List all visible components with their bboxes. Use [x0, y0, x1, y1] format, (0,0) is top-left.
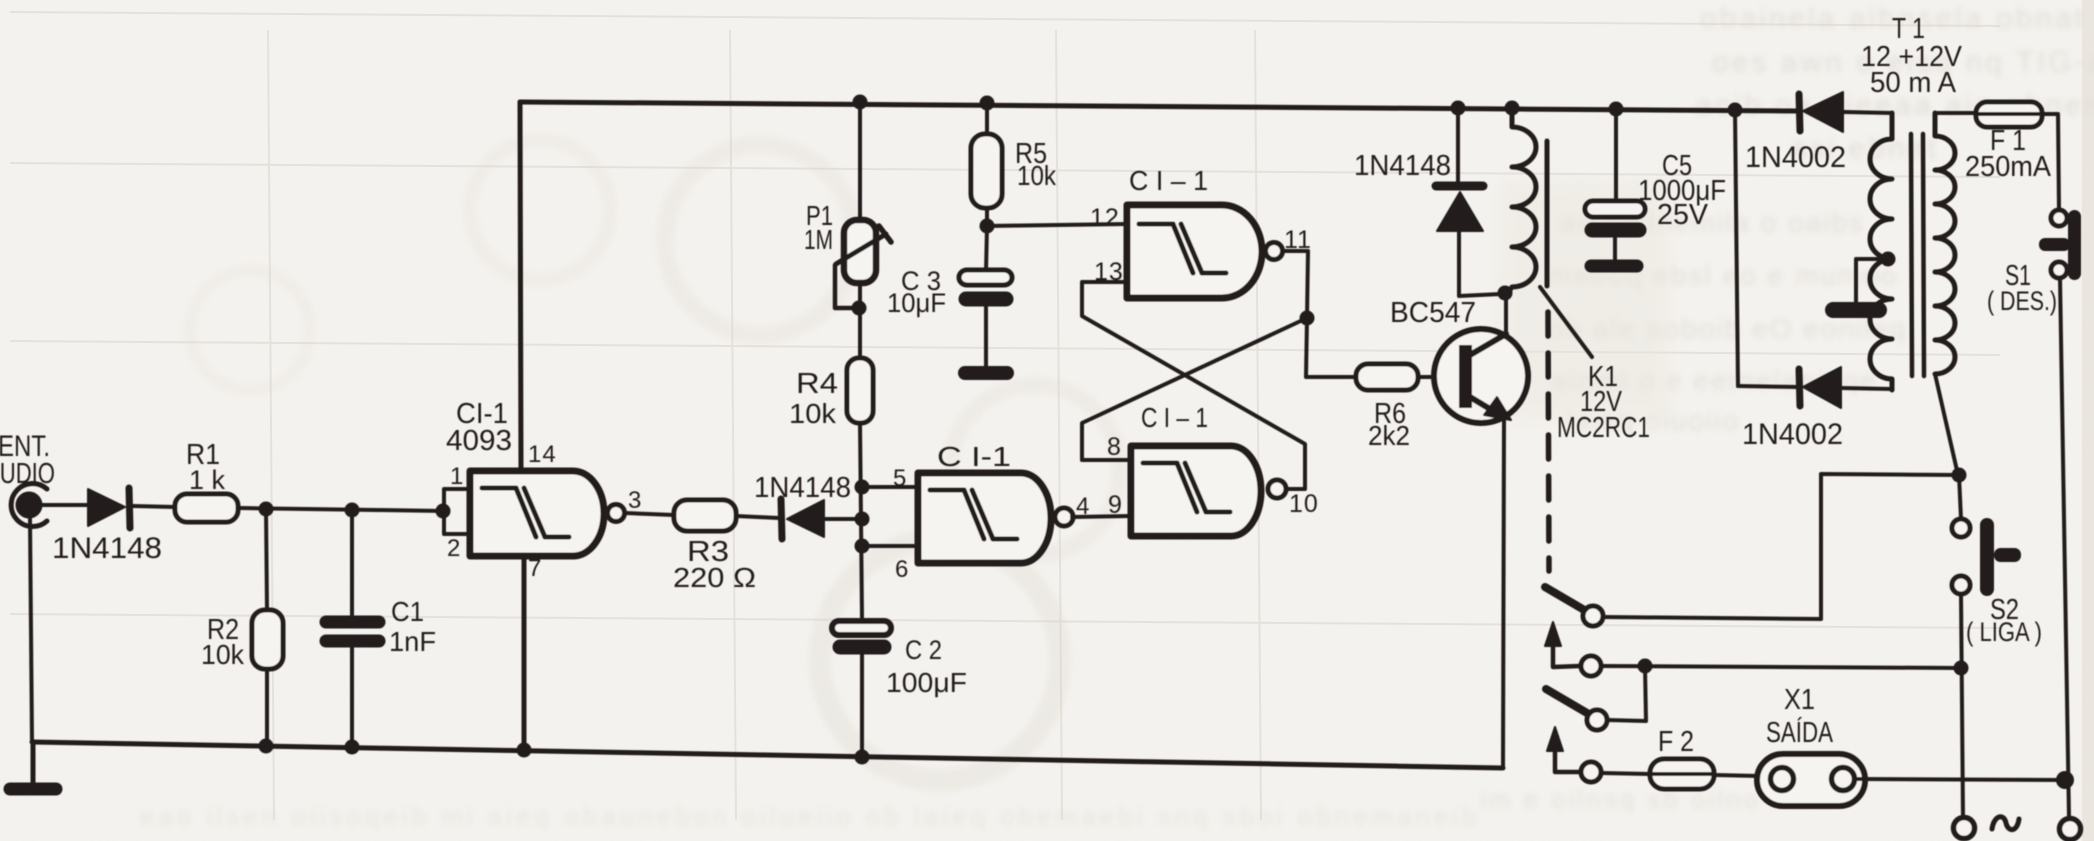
wire: NO contact to S2 top: [1603, 474, 1959, 619]
svg-text:14: 14: [528, 441, 557, 468]
wire: top rail to R5: [985, 103, 989, 134]
wire: pin 13 cross-coupling from gate4 output: [1082, 282, 1305, 489]
resistor R4 10k: [847, 358, 873, 423]
svg-text:220 Ω: 220 Ω: [673, 562, 756, 593]
node: CI-1a input: [436, 504, 451, 519]
node: C2 to 0V rail: [855, 750, 870, 765]
svg-text:10k: 10k: [789, 398, 837, 429]
wire: F2 to X1: [1714, 775, 1760, 776]
svg-text:im e oilnsq sb oilno: im e oilnsq sb oilno: [1480, 784, 1761, 814]
svg-text:1: 1: [450, 463, 464, 490]
wire: pin 7 ground lead: [522, 556, 527, 750]
resistor R1 1k: [175, 494, 238, 522]
svg-text:50 m A: 50 m A: [1870, 67, 1957, 99]
node: coil / collector junction: [1498, 286, 1513, 301]
wire: gate3 output down to latch node: [1282, 251, 1308, 318]
relay contact lever lower: [1546, 689, 1587, 713]
label: AC mains squiggle: [1992, 817, 2019, 830]
node: primary / S2 branch junction: [1952, 468, 1967, 483]
wire: pin 6 lead: [862, 544, 918, 548]
svg-text:250mA: 250mA: [1965, 151, 2052, 183]
connector J1 ENT. AUDIO input jack: [11, 483, 47, 526]
svg-text:25V: 25V: [1657, 199, 1709, 231]
terminal: AC line right: [2060, 819, 2081, 840]
relay fixed contact lower: [1581, 762, 1601, 782]
diode D4 1N4002 (upper): [1799, 94, 1800, 131]
terminal: AC line left: [1954, 818, 1975, 839]
node: pin 7 to 0V rail: [517, 743, 532, 758]
switch S2 (LIGA) pushbutton: [1959, 475, 1961, 519]
node: top rail junction D3: [1451, 101, 1466, 116]
svg-text:1M: 1M: [804, 224, 833, 255]
wire: S1 down right edge: [2060, 278, 2069, 818]
relay contact lever upper: [1545, 587, 1586, 611]
svg-text:eao ilsen oiisoqeib mi aieq ob: eao ilsen oiisoqeib mi aieq obaunebon oi…: [140, 801, 1481, 831]
op gate U1d: CI-1 NAND pins 8,9 -> 10: [1131, 446, 1261, 536]
wire: pin 12 lead: [987, 224, 1127, 226]
svg-text:1N4002: 1N4002: [1742, 418, 1843, 451]
svg-text:2k2: 2k2: [1368, 420, 1410, 451]
svg-text:1 k: 1 k: [189, 465, 225, 495]
wire: input bracket pins 1 and 2: [444, 489, 470, 534]
node: X1 wire junction on right edge: [2056, 771, 2074, 789]
wire: center tap lead: [1856, 259, 1888, 301]
wire: C3 bottom lead: [984, 307, 988, 366]
resistor R3 220 ohm: [674, 500, 736, 531]
svg-text:C 2: C 2: [905, 635, 942, 665]
wire: D5 to secondary bottom: [1841, 388, 1892, 389]
svg-text:C I – 1: C I – 1: [1129, 165, 1208, 196]
svg-text:2: 2: [447, 535, 461, 562]
wire: gate1 output to R3: [624, 513, 674, 515]
svg-text:( LIGA ): ( LIGA ): [1966, 617, 2042, 647]
node: contact strap junction: [1638, 659, 1653, 674]
relay K1 mechanical link (dashed): [1548, 312, 1549, 571]
ground: center tap termination bar: [1833, 302, 1879, 318]
svg-text:4093: 4093: [446, 425, 512, 457]
wire: R2 bottom lead: [265, 669, 269, 743]
wire: +V top supply rail: [520, 102, 1796, 111]
capacitor C2 100uF (electrolytic): [832, 621, 891, 635]
svg-text:1nF: 1nF: [389, 626, 436, 657]
wire: jack ground lead down: [30, 519, 32, 742]
wire: collector to relay node: [1504, 293, 1508, 334]
wire: primary top to F1: [1935, 111, 1976, 115]
svg-text:R4: R4: [796, 368, 838, 400]
pin bubble: gate 1 output: [608, 505, 625, 522]
node: top rail junction rectifier: [1728, 103, 1743, 118]
wire: emitter to 0V rail: [1503, 419, 1504, 768]
svg-text:8: 8: [1107, 433, 1122, 461]
transistor Q1 BC547: [1434, 329, 1528, 423]
diode D3 1N4148 (across relay coil): [1436, 182, 1483, 191]
pin bubble: gate 3 output: [1266, 243, 1283, 260]
wire: R5 to pin 12 node: [985, 208, 989, 226]
wire: gate2 output to pin 9: [1072, 516, 1131, 517]
node: top rail junction K1 coil: [1505, 101, 1520, 116]
wire: K1 label leader line: [1540, 287, 1592, 357]
svg-text:10k: 10k: [1017, 160, 1057, 191]
node: pin 5 junction: [855, 480, 870, 495]
resistor R6 2k2: [1356, 364, 1418, 390]
wire: D4 to secondary top: [1844, 112, 1892, 113]
wire: C3 top lead: [986, 226, 987, 272]
svg-text:F 2: F 2: [1658, 726, 1694, 758]
svg-text:12: 12: [1090, 204, 1120, 232]
svg-text:MC2RC1: MC2RC1: [1557, 412, 1650, 444]
svg-text:9: 9: [1108, 491, 1123, 519]
wire: P1 to R4: [858, 283, 862, 358]
resistor R2 10k: [252, 610, 283, 669]
wire: F1 to S1: [2042, 114, 2059, 210]
wire: top rail to P1: [858, 102, 862, 221]
svg-text:6: 6: [895, 556, 909, 583]
wire: R2 top lead: [266, 509, 267, 610]
svg-text:10μF: 10μF: [887, 288, 946, 318]
wire: node 11 down to R6: [1306, 318, 1356, 377]
node: T1 center tap: [1881, 252, 1896, 267]
diode D2 1N4148 (cathode left): [787, 500, 824, 537]
relay K1 core bar: [1545, 141, 1550, 286]
wire: R3 to D2: [736, 516, 779, 518]
node: P1 bottom junction: [852, 301, 867, 316]
node: C1 to 0V rail: [345, 740, 360, 755]
svg-text:1N4148: 1N4148: [1354, 150, 1451, 182]
node: latch output node 11: [1300, 311, 1315, 326]
svg-text:5: 5: [893, 465, 907, 492]
capacitor C5 1000uF 25V (electrolytic): [1585, 201, 1645, 217]
wire: D3 to coil bottom node: [1459, 231, 1501, 296]
wire: pin 5 lead: [862, 485, 918, 489]
wire: primary bottom lead: [1935, 374, 1958, 475]
wire: cross-coupling node to pin 8: [1082, 318, 1307, 460]
transformer T1 secondary winding: [1870, 113, 1892, 390]
node: pin 6 junction: [855, 539, 870, 554]
wire: rectifier cathode junction down: [1735, 110, 1738, 386]
svg-text:10k: 10k: [201, 639, 245, 670]
wire: lower contact to F2: [1601, 773, 1650, 774]
svg-text:X1: X1: [1784, 684, 1815, 716]
svg-text:1N4148: 1N4148: [754, 472, 851, 504]
relay K1 coil 12V MC2RC1: [1508, 108, 1536, 293]
fuse F1 250mA: [1976, 102, 2042, 127]
svg-text:C I – 1: C I – 1: [1141, 402, 1208, 433]
svg-text:( DES.): ( DES.): [1987, 286, 2057, 316]
capacitor C3 10uF (electrolytic): [959, 270, 1012, 285]
node: S2 line junction with contact row: [1954, 661, 1969, 676]
fuse F2: [1650, 759, 1714, 789]
relay actuation arrow upper: [1553, 642, 1580, 667]
svg-text:10: 10: [1289, 490, 1319, 518]
op gate U1b: CI-1 NAND pins 5,6 -> 4: [918, 473, 1051, 563]
wire: C1 top lead: [350, 510, 354, 616]
wire: R6 to base: [1418, 375, 1459, 379]
ground: C3 termination bar: [965, 366, 1007, 380]
svg-text:1N4002: 1N4002: [1745, 141, 1846, 174]
svg-text:C1: C1: [391, 596, 424, 627]
wire: strap down to lower lever: [1607, 666, 1646, 721]
node: D2 junction on timing line: [855, 512, 870, 527]
wire: R1 to gate input node: [238, 508, 444, 511]
pin bubble: gate 2 output: [1055, 508, 1073, 526]
diode D1 1N4148 (series input): [88, 489, 125, 526]
connector X1 SAIDA output socket: [1757, 754, 1865, 806]
transformer T1 core: [1911, 134, 1912, 376]
wire: D2 to timing node: [826, 517, 862, 521]
wire: common contact row to S2 bottom: [1601, 666, 1959, 668]
wire: D1 to R1: [133, 506, 175, 507]
wire: R4 to gate2 input node: [860, 423, 862, 617]
node: top rail junction R5: [980, 96, 995, 111]
svg-text:C I-1: C I-1: [937, 441, 1011, 472]
capacitor C1 1nF: [326, 616, 379, 629]
wire: top rail to D3: [1456, 108, 1460, 183]
diode D5 1N4002 (lower): [1799, 369, 1800, 406]
svg-text:3: 3: [628, 487, 642, 514]
wire: C1 bottom lead: [350, 648, 354, 745]
relay fixed contact upper: [1581, 656, 1601, 676]
svg-text:1N4148: 1N4148: [52, 532, 162, 565]
wire: jack to D1: [42, 503, 88, 507]
wire: 0V bottom rail: [32, 742, 1503, 768]
transformer T1 primary winding: [1935, 113, 1955, 374]
wire: P1 wiper strap: [835, 265, 859, 308]
wire: X1 to right edge: [1856, 779, 2065, 780]
wire: C5 bottom lead: [1613, 238, 1617, 259]
wire: S2 bottom to terminal: [1961, 594, 1963, 817]
resistor R5 10k: [971, 134, 1002, 208]
relay actuation arrow lower: [1555, 748, 1581, 772]
node: top rail junction C5: [1609, 102, 1624, 117]
node: R5 / C3 / pin12 junction: [980, 219, 995, 234]
node: C1 tap: [345, 503, 360, 518]
op gate U1c: CI-1 NAND pins 12,13 -> 11: [1127, 205, 1262, 298]
node: R2 to 0V rail: [259, 739, 274, 754]
pin bubble: gate 4 output: [1268, 480, 1286, 498]
switch S1 (DES.) pushbutton: [2051, 210, 2067, 226]
node: R2 tap: [259, 502, 274, 517]
wire: top rail to C5: [1614, 109, 1618, 201]
ground: bottom-left ground symbol: [31, 742, 36, 784]
wire: lower diode cathode lead: [1738, 386, 1797, 387]
potentiometer P1 1M: [844, 220, 876, 283]
op gate U1a: CI-1 4093 NAND pins 1,2 -> 3: [470, 471, 604, 556]
svg-text:ÁUDIO: ÁUDIO: [0, 457, 55, 490]
svg-text:SAÍDA: SAÍDA: [1766, 716, 1834, 749]
ground: C5 termination bar: [1591, 260, 1637, 273]
svg-text:BC547: BC547: [1390, 297, 1476, 329]
svg-text:7: 7: [528, 555, 542, 582]
wire: pin 14 supply lead of CI-1: [520, 102, 521, 471]
svg-text:100μF: 100μF: [886, 667, 967, 698]
node: top rail junction P1: [853, 95, 868, 110]
wire: C2 bottom lead: [860, 654, 864, 756]
